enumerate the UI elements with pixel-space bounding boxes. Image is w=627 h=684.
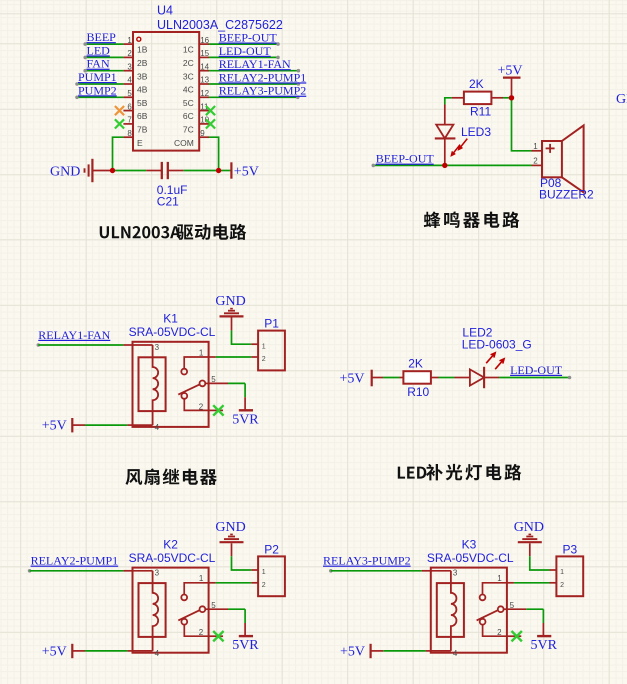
svg-text:6: 6 <box>127 102 132 111</box>
U4 left pin 3 (3B) stub <box>123 70 133 72</box>
caption LED fill light circuit <box>398 467 405 479</box>
node RELAY2-PUMP1 open end <box>297 82 301 86</box>
svg-text:2: 2 <box>533 157 538 166</box>
LED2 light arrows <box>486 353 495 363</box>
svg-text:E: E <box>137 138 143 148</box>
wire relay K2 pin 5 to 5VR <box>209 608 228 610</box>
svg-text:3: 3 <box>127 62 132 71</box>
relay K1 pin 2 stub with no-connect <box>209 409 223 411</box>
wire net RELAY2-PUMP1 from U4 pin 13 <box>209 83 298 85</box>
svg-text:+5V: +5V <box>340 371 365 386</box>
relay K3 pin 4 internal wire <box>431 650 451 652</box>
wire net FAN to U4 pin 3 <box>85 70 123 72</box>
svg-text:RELAY1-FAN: RELAY1-FAN <box>38 328 110 342</box>
no-connect X on U4 pin 11 <box>206 106 215 115</box>
node BEEP-OUT open end <box>372 164 376 168</box>
svg-text:1: 1 <box>199 348 204 357</box>
wire net LED-OUT from U4 pin 15 <box>209 56 278 58</box>
relay K2 pin 3 internal wire <box>133 570 153 572</box>
svg-text:BUZZER2: BUZZER2 <box>539 188 594 202</box>
U4 left pin 7 (7B) stub <box>123 123 133 125</box>
wire net RELAY3-PUMP2 to relay K3 pin 3 <box>331 570 422 572</box>
wire capacitor C21 to +5V junction <box>183 170 218 172</box>
svg-text:SRA-05VDC-CL: SRA-05VDC-CL <box>129 551 216 565</box>
relay K2 pin 4 internal wire <box>133 650 153 652</box>
relay K2 pin 2 internal wire <box>184 625 208 637</box>
svg-text:COM: COM <box>174 138 194 148</box>
caption buzzer circuit <box>424 212 441 228</box>
power 5VR port symbol near K3 <box>537 635 551 637</box>
relay K3 SRA-05VDC-CL body <box>431 568 507 653</box>
svg-text:GND: GND <box>215 294 245 309</box>
wire +5V to relay K1 pin 4 <box>72 424 85 426</box>
U4 right pin 11 (6C) stub <box>199 110 209 112</box>
relay K2 pin 1 internal wire <box>184 583 208 595</box>
relay K2 switch arm <box>178 610 200 620</box>
svg-text:LED-OUT: LED-OUT <box>219 44 272 58</box>
wire R11 to LED3 anode <box>445 98 452 105</box>
relay K3 pin 2 internal wire <box>483 625 507 637</box>
svg-text:RELAY2-PUMP1: RELAY2-PUMP1 <box>31 554 119 568</box>
node RELAY3-PUMP2 open end <box>329 569 333 573</box>
svg-text:5B: 5B <box>137 98 148 108</box>
U4 right pin 15 (2C) stub <box>199 56 209 58</box>
node LED open end <box>83 56 87 60</box>
wire GND to connector P3 pin 1 <box>530 556 550 570</box>
svg-text:RELAY3-PUMP2: RELAY3-PUMP2 <box>323 554 411 568</box>
relay K1 SRA-05VDC-CL body <box>133 342 209 427</box>
svg-text:5VR: 5VR <box>531 638 558 653</box>
U4 left pin 8 (E) stub <box>123 136 133 138</box>
no-connect X on U4 pin 7 <box>115 119 124 128</box>
relay K3 coil <box>451 571 457 651</box>
U4 right pin 16 (1C) stub <box>199 43 209 45</box>
relay K2 coil <box>153 571 159 651</box>
node RELAY1-FAN open end <box>37 343 41 347</box>
svg-text:3C: 3C <box>183 71 194 81</box>
wire relay K2 pin 1 to connector P2 pin 2 <box>209 582 216 584</box>
U4 left pin 5 (5B) stub <box>123 96 133 98</box>
svg-text:12: 12 <box>200 89 209 98</box>
wire net RELAY3-PUMP2 from U4 pin 12 <box>209 96 298 98</box>
U4 pin-1 marker ring <box>137 37 141 41</box>
wire junction to +5V port <box>219 170 232 172</box>
junction at +5V rail <box>216 168 221 173</box>
relay K2 pin 5 contact circle <box>200 606 206 612</box>
node BEEP-OUT open end <box>276 42 280 46</box>
svg-text:14: 14 <box>200 62 209 71</box>
svg-text:4: 4 <box>155 649 160 658</box>
wire net LED to U4 pin 2 <box>85 56 123 58</box>
svg-text:2: 2 <box>127 49 132 58</box>
svg-text:5VR: 5VR <box>232 638 259 653</box>
svg-text:FAN: FAN <box>87 57 110 71</box>
relay K1 pin 3 internal wire <box>133 344 153 346</box>
connector P3 header body <box>556 556 583 596</box>
caption fan relay <box>125 469 142 485</box>
svg-text:2K: 2K <box>469 77 484 91</box>
svg-text:K1: K1 <box>163 312 178 326</box>
wire GND to connector P2 pin 1 <box>232 556 252 570</box>
wire relay K3 pin 1 to connector P3 pin 2 <box>507 582 514 584</box>
relay K1 switch arm <box>178 384 200 394</box>
wire R11 to +5V junction <box>503 97 512 99</box>
no-connect X on relay K3 pin 2 <box>512 631 522 641</box>
U4 left pin 6 (6B) stub <box>123 110 133 112</box>
U4 left pin 2 (2B) stub <box>123 56 133 58</box>
U4 left pin 4 (4B) stub <box>123 83 133 85</box>
svg-text:SRA-05VDC-CL: SRA-05VDC-CL <box>129 325 216 339</box>
svg-text:+5V: +5V <box>42 644 67 659</box>
relay K3 pin 5 contact circle <box>498 606 504 612</box>
svg-text:13: 13 <box>200 76 209 85</box>
wire net LED-OUT <box>499 377 570 379</box>
ground GND power port symbol <box>84 168 86 172</box>
wire R10 to LED2 <box>439 377 455 379</box>
wire net RELAY1-FAN to relay K1 pin 3 <box>38 344 123 346</box>
junction LED3 cathode / BEEP-OUT <box>442 163 447 168</box>
power +5V port symbol (buzzer) <box>503 76 521 78</box>
power 5VR port symbol near K1 <box>239 409 253 411</box>
svg-text:15: 15 <box>200 49 209 58</box>
relay K2 pin 5 internal wire <box>205 608 208 610</box>
resistor R11 2K <box>452 97 464 99</box>
svg-text:1: 1 <box>497 574 502 583</box>
U4 right pin 10 (7C) stub <box>199 123 209 125</box>
svg-text:5VR: 5VR <box>232 412 259 427</box>
svg-text:3: 3 <box>453 569 458 578</box>
power 5VR port symbol near K2 <box>239 635 253 637</box>
svg-text:2: 2 <box>262 356 266 363</box>
svg-text:1: 1 <box>262 343 266 350</box>
svg-text:4: 4 <box>155 423 160 432</box>
svg-text:2K: 2K <box>408 357 423 371</box>
power +5V port symbol (LED lamp) <box>371 370 373 387</box>
no-connect X on relay K1 pin 2 <box>213 405 223 415</box>
relay K3 pin 2 stub with no-connect <box>507 635 521 637</box>
relay K2 pin 2 stub with no-connect <box>209 635 223 637</box>
relay K1 pin 5 internal wire <box>205 382 208 384</box>
buzzer P08 BUZZER2 body <box>542 141 562 177</box>
svg-text:2: 2 <box>560 582 564 589</box>
svg-text:P1: P1 <box>264 317 279 331</box>
relay K1 NC contact circle <box>181 369 187 375</box>
relay K1 common contact circle <box>181 393 187 399</box>
svg-text:+5V: +5V <box>340 644 365 659</box>
buzzer polarity plus sign <box>546 147 555 149</box>
svg-text:1: 1 <box>199 574 204 583</box>
relay K3 common contact circle <box>480 619 486 625</box>
svg-text:2: 2 <box>497 628 502 637</box>
svg-text:3: 3 <box>155 343 160 352</box>
svg-text:1C: 1C <box>183 45 194 55</box>
svg-text:K3: K3 <box>462 537 477 551</box>
node RELAY3-PUMP2 open end <box>296 96 300 100</box>
svg-text:C21: C21 <box>157 195 179 209</box>
svg-text:8: 8 <box>127 129 132 138</box>
svg-text:3B: 3B <box>137 71 148 81</box>
svg-text:R11: R11 <box>470 104 491 118</box>
relay K3 switch arm <box>477 610 499 620</box>
U4 right pin 14 (3C) stub <box>199 70 209 72</box>
svg-text:LED-OUT: LED-OUT <box>510 363 563 377</box>
wire relay K1 pin 5 to 5VR <box>209 382 228 384</box>
svg-text:GND: GND <box>616 92 627 107</box>
wire net PUMP2 to U4 pin 5 <box>77 96 123 98</box>
svg-text:U4: U4 <box>157 4 173 18</box>
relay K2 common contact circle <box>181 619 187 625</box>
svg-text:1: 1 <box>533 142 538 151</box>
svg-text:6C: 6C <box>183 111 194 121</box>
U4 left pin 1 (1B) stub <box>123 43 133 45</box>
LED3 light arrows <box>459 139 468 150</box>
svg-text:1B: 1B <box>137 45 148 55</box>
wire GND rail to capacitor C21 <box>113 170 147 172</box>
svg-text:2: 2 <box>199 402 204 411</box>
svg-text:2: 2 <box>262 582 266 589</box>
wire GND to connector P1 pin 1 <box>232 330 252 344</box>
node PUMP2 open end <box>75 96 79 100</box>
buzzer P08 pin 1 stub <box>532 150 543 152</box>
caption ULN2003A driver circuit <box>100 226 109 238</box>
svg-text:5: 5 <box>127 89 132 98</box>
wire net BEEP-OUT from U4 pin 16 <box>209 43 278 45</box>
resistor R10 2K <box>400 377 404 379</box>
svg-text:9: 9 <box>200 129 205 138</box>
U4 right pin 12 (5C) stub <box>199 96 209 98</box>
relay K2 SRA-05VDC-CL body <box>133 568 209 653</box>
relay K3 NC contact circle <box>480 595 486 601</box>
buzzer P08 pin 2 stub <box>532 164 543 166</box>
wire net PUMP1 to U4 pin 4 <box>77 83 123 85</box>
diode LED3 <box>444 105 446 125</box>
wire U4 pin 9 (COM) to +5V rail <box>209 137 219 170</box>
svg-text:+5V: +5V <box>498 63 523 78</box>
relay K2 NC contact circle <box>181 595 187 601</box>
svg-text:RELAY3-PUMP2: RELAY3-PUMP2 <box>219 84 307 98</box>
svg-text:2: 2 <box>199 628 204 637</box>
power +5V port symbol <box>230 162 232 178</box>
relay K1 pin 2 internal wire <box>184 399 208 411</box>
svg-text:RELAY2-PUMP1: RELAY2-PUMP1 <box>219 70 307 84</box>
relay K1 coil <box>153 345 159 425</box>
U4 right pin 9 (COM) stub <box>199 136 209 138</box>
svg-text:P2: P2 <box>264 542 279 556</box>
wire net BEEP to U4 pin 1 <box>85 43 123 45</box>
svg-text:5C: 5C <box>183 98 194 108</box>
relay K1 pin 1 internal wire <box>184 357 208 369</box>
relay K1 pin 5 contact circle <box>200 381 206 387</box>
svg-text:1: 1 <box>560 569 564 576</box>
relay K3 pin 1 internal wire <box>483 583 507 595</box>
wire U4 pin 8 (E) to GND rail <box>113 137 124 170</box>
svg-text:GND: GND <box>514 520 544 535</box>
node FAN open end <box>83 69 87 73</box>
wire relay K1 pin 1 to connector P1 pin 2 <box>209 356 216 358</box>
svg-text:+5V: +5V <box>234 164 259 179</box>
svg-text:LED: LED <box>87 43 111 57</box>
svg-text:P3: P3 <box>563 542 578 556</box>
svg-text:7B: 7B <box>137 125 148 135</box>
svg-text:4: 4 <box>453 649 458 658</box>
svg-text:GND: GND <box>50 164 80 179</box>
relay K2 coil box <box>139 583 166 637</box>
svg-text:GND: GND <box>215 520 245 535</box>
relay K3 pin 5 internal wire <box>504 608 507 610</box>
svg-text:PUMP1: PUMP1 <box>78 70 117 84</box>
svg-text:2B: 2B <box>137 58 148 68</box>
connector P1 header body <box>258 331 285 371</box>
svg-text:4B: 4B <box>137 85 148 95</box>
capacitor C21 0.1uF <box>146 170 161 172</box>
svg-text:4C: 4C <box>183 85 194 95</box>
svg-text:3: 3 <box>155 569 160 578</box>
junction at GND rail left <box>110 168 115 173</box>
wire +5V to R10 <box>372 377 383 379</box>
diode LED2 LED-0603_G <box>455 377 470 379</box>
node PUMP1 open end <box>75 82 79 86</box>
svg-text:R10: R10 <box>407 385 429 399</box>
svg-text:K2: K2 <box>163 537 178 551</box>
node LED-OUT open end <box>568 376 572 380</box>
wire net BEEP-OUT to buzzer <box>373 164 531 166</box>
svg-text:BEEP-OUT: BEEP-OUT <box>219 31 278 45</box>
svg-text:4: 4 <box>127 76 132 85</box>
no-connect X on relay K2 pin 2 <box>213 631 223 641</box>
svg-text:BEEP: BEEP <box>87 30 117 44</box>
svg-text:PUMP2: PUMP2 <box>78 83 117 97</box>
junction at R11 / +5V <box>509 95 514 100</box>
wire +5V to relay K2 pin 4 <box>72 650 85 652</box>
svg-text:1: 1 <box>127 36 132 45</box>
relay K1 coil box <box>139 357 166 411</box>
svg-text:2C: 2C <box>183 58 194 68</box>
wire net RELAY2-PUMP1 to relay K2 pin 3 <box>30 570 124 572</box>
node RELAY1-FAN open end <box>297 69 301 73</box>
wire relay K3 pin 5 to 5VR <box>507 608 526 610</box>
svg-text:LED-0603_G: LED-0603_G <box>462 337 532 351</box>
node LED-OUT open end <box>276 56 280 60</box>
no-connect X on U4 pin 10 <box>206 119 215 128</box>
node RELAY2-PUMP1 open end <box>28 569 32 573</box>
svg-text:LED3: LED3 <box>461 125 491 139</box>
relay K3 pin 3 internal wire <box>431 570 451 572</box>
node BEEP open end <box>83 42 87 46</box>
wire +5V junction to buzzer pin 1 <box>512 98 532 151</box>
wire +5V to relay K3 pin 4 <box>371 650 384 652</box>
svg-text:7C: 7C <box>183 125 194 135</box>
svg-text:+5V: +5V <box>42 419 67 434</box>
relay K3 coil box <box>437 583 464 637</box>
no-connect X on U4 pin 6 <box>115 106 124 115</box>
svg-text:6B: 6B <box>137 111 148 121</box>
connector P2 header body <box>258 556 285 596</box>
op-amp U4 ULN2003A IC body <box>133 32 199 151</box>
svg-text:16: 16 <box>200 36 209 45</box>
relay K1 pin 4 internal wire <box>133 424 153 426</box>
U4 right pin 13 (4C) stub <box>199 83 209 85</box>
svg-text:1: 1 <box>262 569 266 576</box>
svg-text:RELAY1-FAN: RELAY1-FAN <box>219 57 291 71</box>
wire net RELAY1-FAN from U4 pin 14 <box>209 70 298 72</box>
svg-text:BEEP-OUT: BEEP-OUT <box>376 152 435 166</box>
svg-text:SRA-05VDC-CL: SRA-05VDC-CL <box>427 551 514 565</box>
svg-text:7: 7 <box>127 116 132 125</box>
